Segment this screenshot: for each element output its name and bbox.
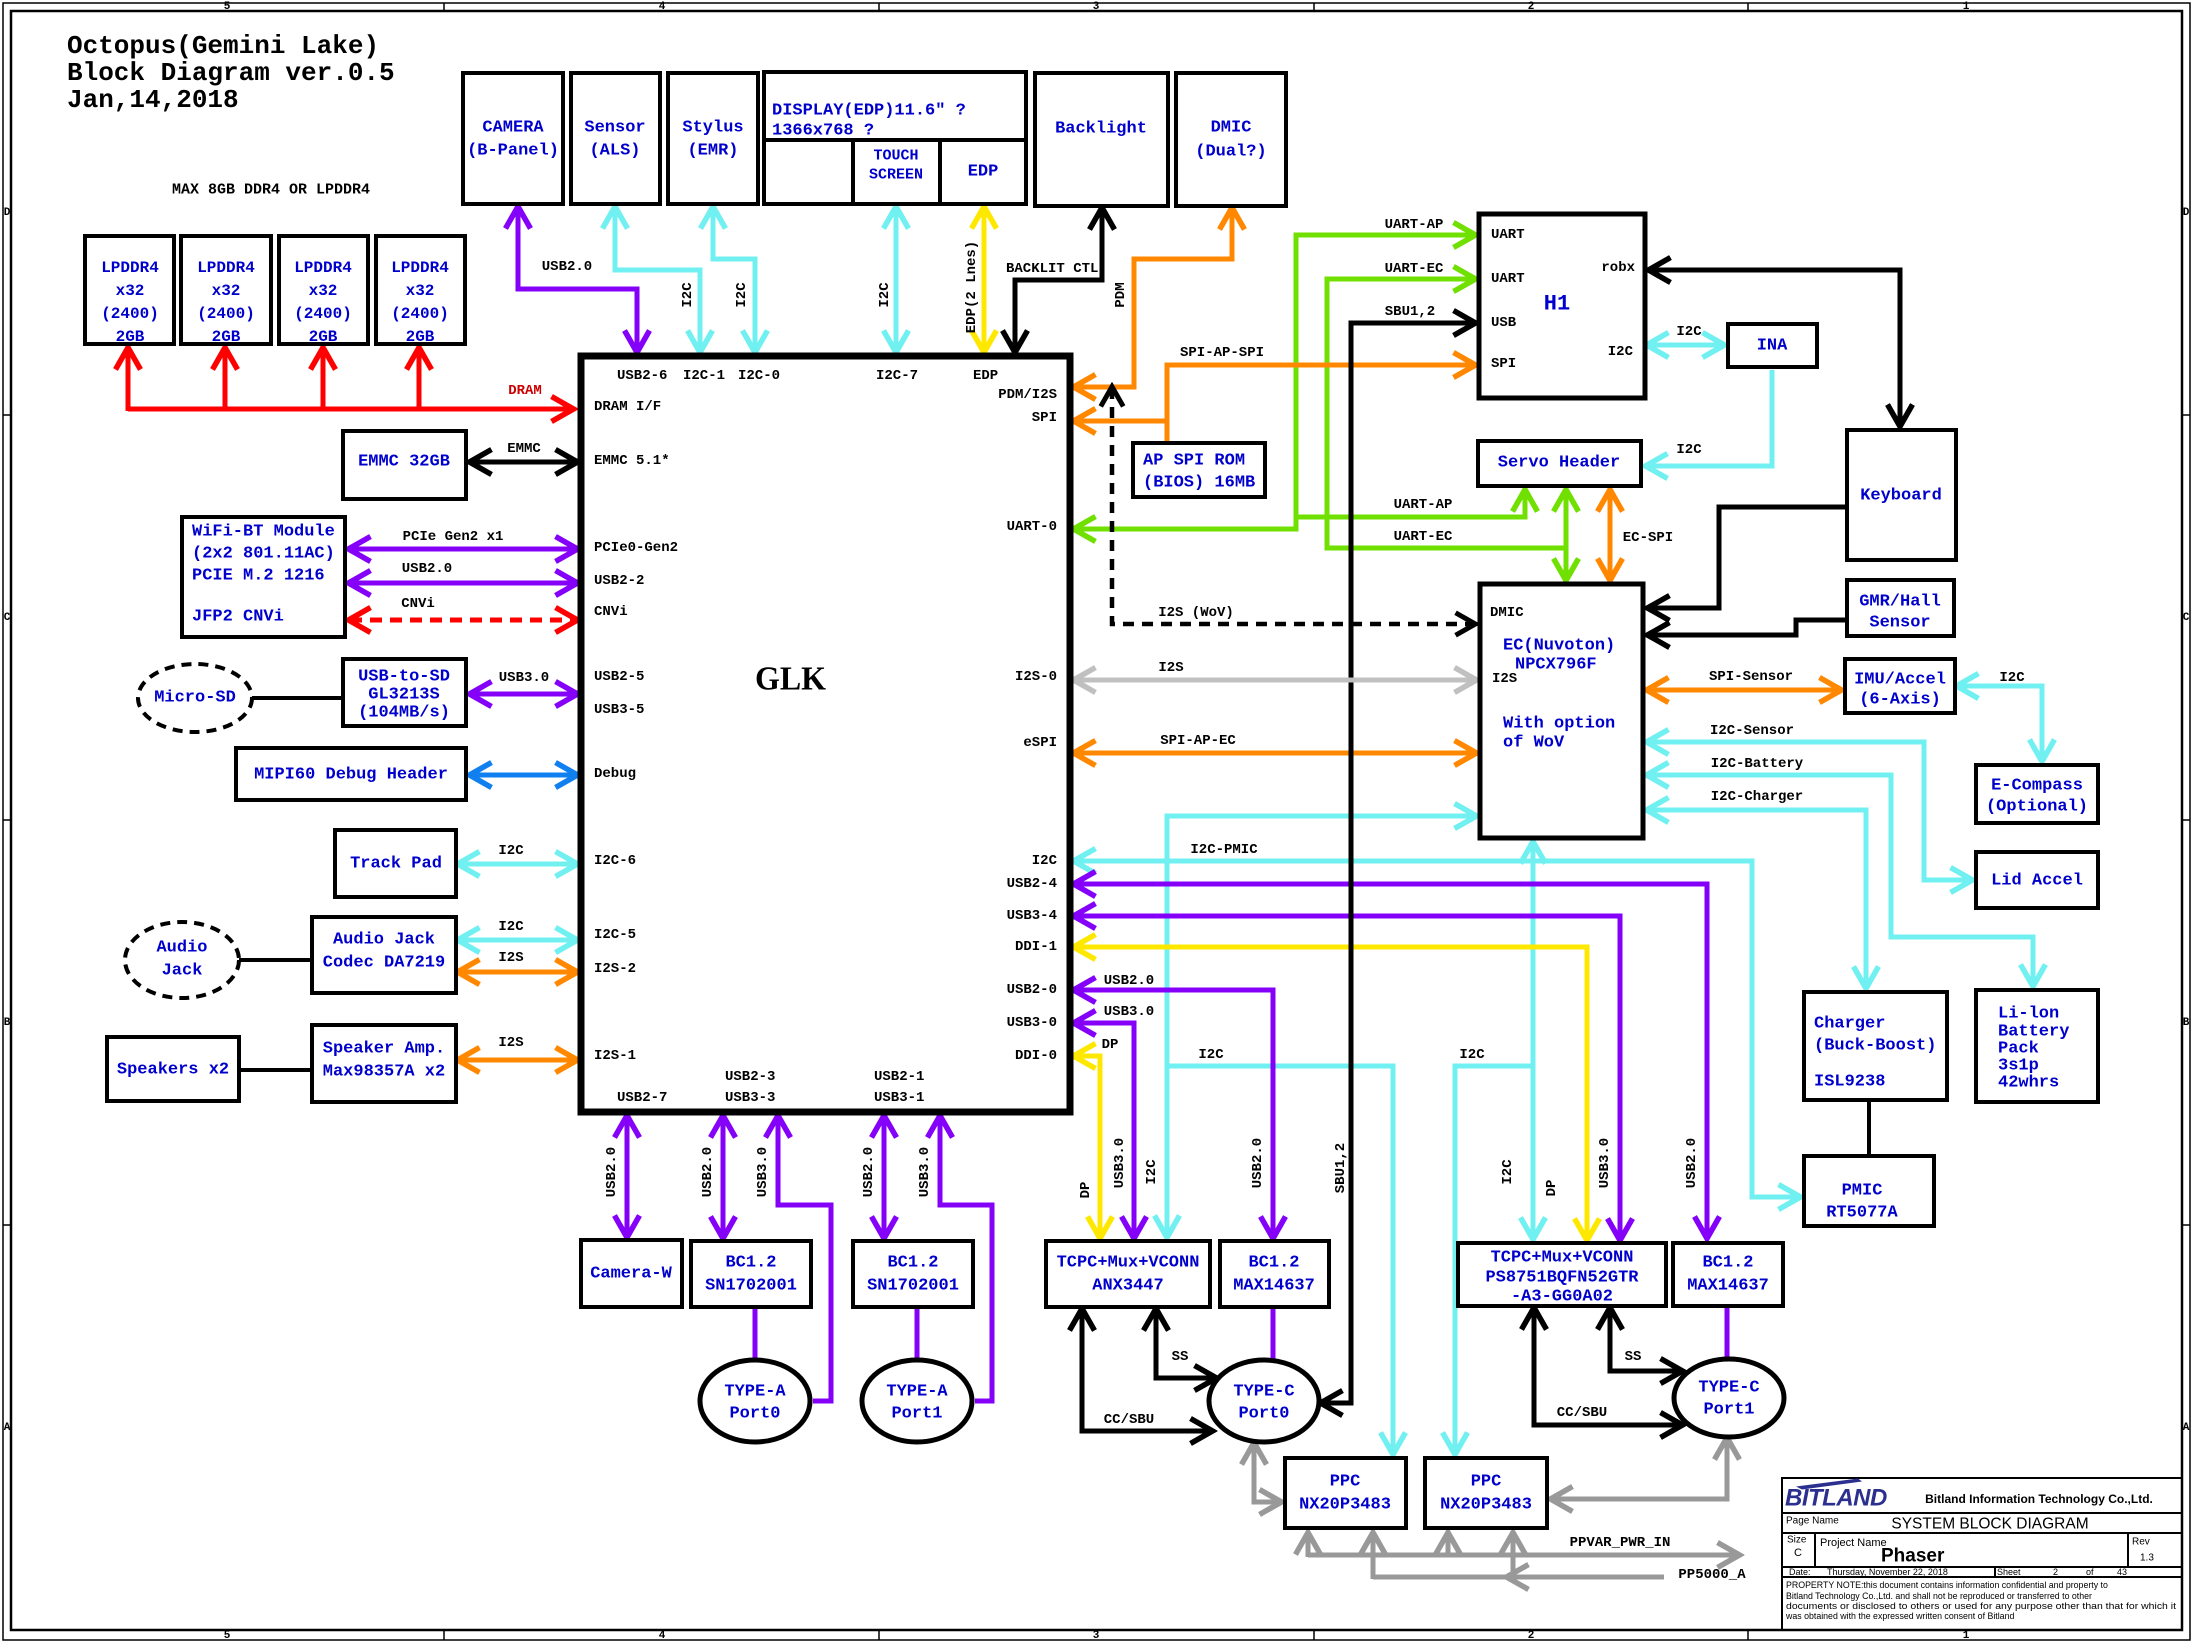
svg-text:ANX3447: ANX3447 xyxy=(1092,1277,1163,1296)
svg-text:TYPE-C: TYPE-C xyxy=(1233,1383,1294,1402)
svg-text:C: C xyxy=(4,612,11,624)
svg-text:DP: DP xyxy=(1544,1180,1560,1197)
svg-text:USB3-0: USB3-0 xyxy=(1007,1015,1057,1031)
svg-text:SYSTEM BLOCK DIAGRAM: SYSTEM BLOCK DIAGRAM xyxy=(1891,1516,2088,1533)
svg-text:Rev: Rev xyxy=(2132,1537,2150,1548)
svg-text:A: A xyxy=(4,1422,11,1434)
svg-text:TYPE-C: TYPE-C xyxy=(1698,1379,1759,1398)
svg-text:Port0: Port0 xyxy=(1238,1405,1289,1424)
svg-text:DRAM I/F: DRAM I/F xyxy=(594,399,661,415)
svg-text:GLK: GLK xyxy=(755,661,827,698)
svg-text:CAMERA: CAMERA xyxy=(482,119,544,138)
svg-text:(Buck-Boost): (Buck-Boost) xyxy=(1814,1037,1936,1056)
svg-text:I2C: I2C xyxy=(1500,1159,1516,1185)
svg-text:I2C: I2C xyxy=(498,919,524,935)
svg-text:EMMC 32GB: EMMC 32GB xyxy=(358,453,450,472)
svg-text:USB2-1: USB2-1 xyxy=(874,1069,924,1085)
svg-text:LPDDR4: LPDDR4 xyxy=(197,259,255,277)
svg-text:(Optional): (Optional) xyxy=(1986,798,2088,817)
svg-text:SS: SS xyxy=(1172,1349,1189,1365)
svg-text:GMR/Hall: GMR/Hall xyxy=(1859,593,1941,612)
svg-text:Project Name: Project Name xyxy=(1820,1537,1887,1549)
svg-text:PPC: PPC xyxy=(1330,1473,1361,1492)
svg-text:(6-Axis): (6-Axis) xyxy=(1859,691,1941,710)
svg-text:DP: DP xyxy=(1078,1182,1094,1199)
svg-text:Li-lon: Li-lon xyxy=(1998,1005,2059,1024)
svg-text:EDP: EDP xyxy=(973,368,998,384)
svg-text:TYPE-A: TYPE-A xyxy=(724,1383,786,1402)
svg-text:was obtained with the expresse: was obtained with the expressed written … xyxy=(1785,1611,2014,1621)
svg-text:D: D xyxy=(4,207,11,219)
svg-text:PCIe Gen2 x1: PCIe Gen2 x1 xyxy=(403,529,504,545)
svg-text:2GB: 2GB xyxy=(309,328,338,346)
svg-text:UART-EC: UART-EC xyxy=(1394,529,1453,545)
svg-text:3: 3 xyxy=(1093,1630,1100,1642)
svg-text:I2C: I2C xyxy=(1676,442,1702,458)
svg-text:SPI-Sensor: SPI-Sensor xyxy=(1709,669,1793,685)
svg-text:SS: SS xyxy=(1625,1349,1642,1365)
svg-text:1: 1 xyxy=(1963,1,1970,13)
svg-text:ISL9238: ISL9238 xyxy=(1814,1073,1885,1092)
svg-text:MAX14637: MAX14637 xyxy=(1687,1277,1769,1296)
svg-text:DDI-0: DDI-0 xyxy=(1015,1048,1057,1064)
svg-text:2GB: 2GB xyxy=(406,328,435,346)
svg-text:I2S-0: I2S-0 xyxy=(1015,669,1057,685)
svg-text:Codec DA7219: Codec DA7219 xyxy=(323,954,445,973)
svg-text:-A3-GG0A02: -A3-GG0A02 xyxy=(1511,1288,1613,1307)
svg-text:I2C-5: I2C-5 xyxy=(594,927,636,943)
svg-text:DDI-1: DDI-1 xyxy=(1015,939,1057,955)
svg-text:Track Pad: Track Pad xyxy=(350,855,442,874)
svg-text:UART: UART xyxy=(1491,227,1525,243)
svg-text:NPCX796F: NPCX796F xyxy=(1515,656,1597,675)
svg-text:I2C: I2C xyxy=(734,282,750,308)
svg-text:PPC: PPC xyxy=(1471,1473,1502,1492)
svg-text:USB2.0: USB2.0 xyxy=(402,561,452,577)
svg-text:UART-AP: UART-AP xyxy=(1394,497,1453,513)
svg-text:AP SPI ROM: AP SPI ROM xyxy=(1143,452,1245,471)
svg-text:MIPI60 Debug Header: MIPI60 Debug Header xyxy=(254,766,448,785)
svg-text:5: 5 xyxy=(224,1,231,13)
svg-text:USB3.0: USB3.0 xyxy=(1112,1138,1128,1188)
svg-text:GL3213S: GL3213S xyxy=(368,686,439,705)
svg-text:C: C xyxy=(2183,612,2190,624)
svg-text:UART-0: UART-0 xyxy=(1007,519,1057,535)
svg-text:1366x768 ?: 1366x768 ? xyxy=(772,122,874,141)
svg-text:H1: H1 xyxy=(1544,292,1570,317)
svg-text:MAX 8GB DDR4 OR LPDDR4: MAX 8GB DDR4 OR LPDDR4 xyxy=(172,182,370,199)
svg-text:Bitland Technology Co.,Ltd. a: Bitland Technology Co.,Ltd. and shall no… xyxy=(1786,1591,2092,1601)
svg-text:2: 2 xyxy=(1528,1,1535,13)
svg-text:Keyboard: Keyboard xyxy=(1860,487,1942,506)
svg-text:DISPLAY(EDP)11.6" ?: DISPLAY(EDP)11.6" ? xyxy=(772,102,966,121)
svg-text:(104MB/s): (104MB/s) xyxy=(358,704,450,723)
svg-text:I2C: I2C xyxy=(1144,1159,1160,1185)
svg-text:CNVi: CNVi xyxy=(594,604,628,620)
svg-text:PMIC: PMIC xyxy=(1842,1182,1883,1201)
svg-text:EDP: EDP xyxy=(968,163,999,182)
svg-text:Sensor: Sensor xyxy=(1869,614,1930,633)
svg-text:BACKLIT CTL: BACKLIT CTL xyxy=(1006,261,1098,277)
svg-text:Micro-SD: Micro-SD xyxy=(154,689,236,708)
svg-text:EMMC: EMMC xyxy=(507,441,541,457)
svg-text:42whrs: 42whrs xyxy=(1998,1074,2059,1093)
svg-text:SPI-AP-EC: SPI-AP-EC xyxy=(1160,733,1236,749)
svg-text:I2S-1: I2S-1 xyxy=(594,1048,636,1064)
svg-text:I2C: I2C xyxy=(1608,344,1634,360)
svg-text:(2x2 801.11AC): (2x2 801.11AC) xyxy=(192,545,335,564)
svg-text:TCPC+Mux+VCONN: TCPC+Mux+VCONN xyxy=(1491,1249,1634,1268)
svg-text:(B-Panel): (B-Panel) xyxy=(467,142,559,161)
svg-text:USB3.0: USB3.0 xyxy=(917,1147,933,1197)
svg-text:USB2.0: USB2.0 xyxy=(542,259,592,275)
svg-text:LPDDR4: LPDDR4 xyxy=(294,259,352,277)
svg-text:I2C-6: I2C-6 xyxy=(594,853,636,869)
svg-text:USB2-7: USB2-7 xyxy=(617,1090,667,1106)
svg-text:USB3.0: USB3.0 xyxy=(1597,1138,1613,1188)
svg-text:I2C: I2C xyxy=(877,282,893,308)
svg-text:USB2.0: USB2.0 xyxy=(861,1147,877,1197)
svg-text:TYPE-A: TYPE-A xyxy=(886,1383,948,1402)
svg-text:MAX14637: MAX14637 xyxy=(1233,1277,1315,1296)
svg-text:EDP(2 Lnes): EDP(2 Lnes) xyxy=(964,241,980,333)
svg-text:(2400): (2400) xyxy=(294,305,352,323)
svg-text:B: B xyxy=(4,1017,11,1029)
svg-text:Thursday, November 22, 2018: Thursday, November 22, 2018 xyxy=(1827,1567,1948,1577)
svg-text:UART: UART xyxy=(1491,271,1525,287)
svg-text:PCIE M.2 1216: PCIE M.2 1216 xyxy=(192,567,325,586)
svg-text:USB3.0: USB3.0 xyxy=(1104,1004,1154,1020)
svg-text:I2S: I2S xyxy=(498,950,523,966)
svg-text:x32: x32 xyxy=(309,282,338,300)
svg-text:LPDDR4: LPDDR4 xyxy=(101,259,159,277)
svg-text:RT5077A: RT5077A xyxy=(1826,1204,1898,1223)
svg-text:Sheet: Sheet xyxy=(1997,1567,2021,1577)
svg-text:B: B xyxy=(2183,1017,2190,1029)
svg-text:USB3-1: USB3-1 xyxy=(874,1090,924,1106)
svg-text:SPI-AP-SPI: SPI-AP-SPI xyxy=(1180,345,1264,361)
svg-text:I2C-0: I2C-0 xyxy=(738,368,780,384)
svg-text:I2C: I2C xyxy=(1459,1047,1485,1063)
svg-text:DMIC: DMIC xyxy=(1211,119,1252,138)
svg-text:TOUCH: TOUCH xyxy=(873,148,918,165)
svg-text:I2S-2: I2S-2 xyxy=(594,961,636,977)
svg-text:Sensor: Sensor xyxy=(584,119,645,138)
svg-text:EC(Nuvoton): EC(Nuvoton) xyxy=(1503,637,1615,656)
svg-text:USB3.0: USB3.0 xyxy=(755,1147,771,1197)
svg-text:I2C: I2C xyxy=(1999,670,2025,686)
svg-text:Audio Jack: Audio Jack xyxy=(333,931,435,950)
svg-text:PP5000_A: PP5000_A xyxy=(1678,1567,1746,1583)
svg-text:2: 2 xyxy=(1528,1630,1535,1642)
svg-text:SCREEN: SCREEN xyxy=(869,167,923,184)
svg-text:5: 5 xyxy=(224,1630,231,1642)
svg-text:PPVAR_PWR_IN: PPVAR_PWR_IN xyxy=(1570,1535,1671,1551)
svg-text:I2C: I2C xyxy=(680,282,696,308)
svg-text:CC/SBU: CC/SBU xyxy=(1104,1412,1154,1428)
svg-text:USB2.0: USB2.0 xyxy=(604,1147,620,1197)
svg-text:BC1.2: BC1.2 xyxy=(1248,1254,1299,1273)
svg-text:SPI: SPI xyxy=(1491,356,1516,372)
svg-text:PS8751BQFN52GTR: PS8751BQFN52GTR xyxy=(1485,1269,1639,1288)
svg-text:Port1: Port1 xyxy=(891,1405,942,1424)
svg-text:(2400): (2400) xyxy=(391,305,449,323)
svg-text:D: D xyxy=(2183,207,2190,219)
svg-text:Servo Header: Servo Header xyxy=(1498,454,1620,473)
svg-text:USB2-6: USB2-6 xyxy=(617,368,667,384)
svg-text:NX20P3483: NX20P3483 xyxy=(1440,1496,1532,1515)
svg-text:I2C: I2C xyxy=(1032,853,1058,869)
svg-text:PDM/I2S: PDM/I2S xyxy=(998,387,1057,403)
svg-text:Octopus(Gemini Lake): Octopus(Gemini Lake) xyxy=(67,31,379,61)
svg-text:SBU1,2: SBU1,2 xyxy=(1333,1143,1349,1193)
svg-text:I2C-PMIC: I2C-PMIC xyxy=(1190,842,1258,858)
svg-text:2GB: 2GB xyxy=(212,328,241,346)
svg-text:I2C-Battery: I2C-Battery xyxy=(1711,756,1804,772)
svg-text:USB3-3: USB3-3 xyxy=(725,1090,775,1106)
svg-text:A: A xyxy=(2183,1422,2190,1434)
svg-text:JFP2 CNVi: JFP2 CNVi xyxy=(192,608,284,627)
svg-text:I2S: I2S xyxy=(1158,660,1183,676)
svg-text:NX20P3483: NX20P3483 xyxy=(1299,1496,1391,1515)
svg-text:USB: USB xyxy=(1491,315,1517,331)
svg-text:Block Diagram ver.0.5: Block Diagram ver.0.5 xyxy=(67,58,395,88)
svg-text:BC1.2: BC1.2 xyxy=(1702,1254,1753,1273)
svg-text:Charger: Charger xyxy=(1814,1015,1885,1034)
svg-text:DRAM: DRAM xyxy=(508,383,542,399)
svg-text:USB3-4: USB3-4 xyxy=(1007,908,1057,924)
svg-text:UART-EC: UART-EC xyxy=(1385,261,1444,277)
svg-text:Date:: Date: xyxy=(1789,1567,1811,1577)
svg-text:3: 3 xyxy=(1093,1,1100,13)
svg-text:I2S: I2S xyxy=(1492,671,1517,687)
svg-text:SN1702001: SN1702001 xyxy=(867,1277,959,1296)
svg-text:eSPI: eSPI xyxy=(1023,735,1057,751)
svg-text:USB2.0: USB2.0 xyxy=(1684,1138,1700,1188)
svg-text:USB2.0: USB2.0 xyxy=(1250,1138,1266,1188)
svg-text:USB2-2: USB2-2 xyxy=(594,573,644,589)
svg-text:SN1702001: SN1702001 xyxy=(705,1277,797,1296)
svg-text:(2400): (2400) xyxy=(101,305,159,323)
svg-text:x32: x32 xyxy=(116,282,145,300)
svg-text:Phaser: Phaser xyxy=(1881,1546,1945,1567)
svg-text:(BIOS) 16MB: (BIOS) 16MB xyxy=(1143,474,1255,493)
svg-text:C: C xyxy=(1794,1547,1802,1559)
svg-text:Speakers x2: Speakers x2 xyxy=(117,1061,229,1080)
svg-text:Backlight: Backlight xyxy=(1055,120,1147,139)
svg-text:1: 1 xyxy=(1963,1630,1970,1642)
svg-text:DP: DP xyxy=(1102,1037,1119,1053)
svg-text:Port0: Port0 xyxy=(729,1405,780,1424)
svg-text:4: 4 xyxy=(659,1630,666,1642)
svg-text:I2C-1: I2C-1 xyxy=(683,368,725,384)
svg-text:Max98357A x2: Max98357A x2 xyxy=(323,1063,445,1082)
svg-text:SBU1,2: SBU1,2 xyxy=(1385,304,1435,320)
svg-text:DMIC: DMIC xyxy=(1490,605,1524,621)
svg-text:USB3-5: USB3-5 xyxy=(594,702,644,718)
svg-text:LPDDR4: LPDDR4 xyxy=(391,259,449,277)
svg-text:Page Name: Page Name xyxy=(1786,1516,1839,1527)
svg-text:CC/SBU: CC/SBU xyxy=(1557,1405,1607,1421)
svg-text:robx: robx xyxy=(1601,260,1635,276)
svg-text:E-Compass: E-Compass xyxy=(1991,777,2083,796)
svg-text:I2S: I2S xyxy=(498,1035,523,1051)
svg-text:USB2-5: USB2-5 xyxy=(594,669,644,685)
svg-text:USB2-0: USB2-0 xyxy=(1007,982,1057,998)
svg-text:(ALS): (ALS) xyxy=(589,142,640,161)
svg-text:PDM: PDM xyxy=(1113,282,1129,307)
svg-text:Jack: Jack xyxy=(162,962,203,981)
svg-text:Speaker Amp.: Speaker Amp. xyxy=(323,1040,445,1059)
svg-text:Jan,14,2018: Jan,14,2018 xyxy=(67,85,239,115)
svg-text:USB2-4: USB2-4 xyxy=(1007,876,1057,892)
svg-text:I2C: I2C xyxy=(1198,1047,1224,1063)
svg-text:BC1.2: BC1.2 xyxy=(725,1254,776,1273)
svg-text:Camera-W: Camera-W xyxy=(590,1265,672,1284)
svg-text:Port1: Port1 xyxy=(1703,1401,1754,1420)
svg-text:I2C: I2C xyxy=(1676,324,1702,340)
svg-text:Debug: Debug xyxy=(594,766,636,782)
svg-text:Stylus: Stylus xyxy=(682,119,743,138)
svg-text:43: 43 xyxy=(2117,1567,2127,1577)
svg-text:x32: x32 xyxy=(406,282,435,300)
svg-text:I2S (WoV): I2S (WoV) xyxy=(1158,605,1234,621)
svg-text:(2400): (2400) xyxy=(197,305,255,323)
svg-text:PCIe0-Gen2: PCIe0-Gen2 xyxy=(594,540,678,556)
svg-text:TCPC+Mux+VCONN: TCPC+Mux+VCONN xyxy=(1057,1254,1200,1273)
svg-text:x32: x32 xyxy=(212,282,241,300)
svg-text:I2C: I2C xyxy=(498,843,524,859)
svg-text:4: 4 xyxy=(659,1,666,13)
svg-text:1.3: 1.3 xyxy=(2140,1553,2154,1564)
svg-text:BC1.2: BC1.2 xyxy=(887,1254,938,1273)
svg-text:Size: Size xyxy=(1787,1535,1807,1546)
svg-text:of: of xyxy=(2086,1567,2094,1577)
svg-text:Bitland Information Technology: Bitland Information Technology Co.,Ltd. xyxy=(1925,1492,2153,1506)
svg-text:I2C-Charger: I2C-Charger xyxy=(1711,789,1803,805)
svg-text:UART-AP: UART-AP xyxy=(1385,217,1444,233)
svg-text:2: 2 xyxy=(2053,1567,2058,1577)
svg-text:IMU/Accel: IMU/Accel xyxy=(1854,671,1946,690)
svg-text:USB2.0: USB2.0 xyxy=(700,1147,716,1197)
svg-text:USB2.0: USB2.0 xyxy=(1104,973,1154,989)
svg-text:PROPERTY NOTE:this document co: PROPERTY NOTE:this document contains inf… xyxy=(1786,1580,2108,1590)
svg-text:USB-to-SD: USB-to-SD xyxy=(358,668,450,687)
svg-text:I2C-Sensor: I2C-Sensor xyxy=(1710,723,1794,739)
svg-text:EC-SPI: EC-SPI xyxy=(1623,530,1673,546)
svg-text:SPI: SPI xyxy=(1032,410,1057,426)
svg-text:Audio: Audio xyxy=(156,939,207,958)
svg-text:(EMR): (EMR) xyxy=(687,142,738,161)
svg-text:USB3.0: USB3.0 xyxy=(499,670,549,686)
svg-text:I2C-7: I2C-7 xyxy=(876,368,918,384)
svg-text:(Dual?): (Dual?) xyxy=(1195,143,1266,162)
svg-text:CNVi: CNVi xyxy=(401,596,435,612)
svg-text:USB2-3: USB2-3 xyxy=(725,1069,775,1085)
svg-text:of WoV: of WoV xyxy=(1503,734,1565,753)
svg-text:EMMC 5.1*: EMMC 5.1* xyxy=(594,453,670,469)
svg-text:Lid Accel: Lid Accel xyxy=(1991,872,2083,891)
svg-text:INA: INA xyxy=(1757,337,1788,356)
svg-text:2GB: 2GB xyxy=(116,328,145,346)
svg-text:With option: With option xyxy=(1503,715,1615,734)
svg-text:documents or disclosed to othe: documents or disclosed to others or used… xyxy=(1786,1601,2177,1611)
svg-text:WiFi-BT Module: WiFi-BT Module xyxy=(192,523,335,542)
